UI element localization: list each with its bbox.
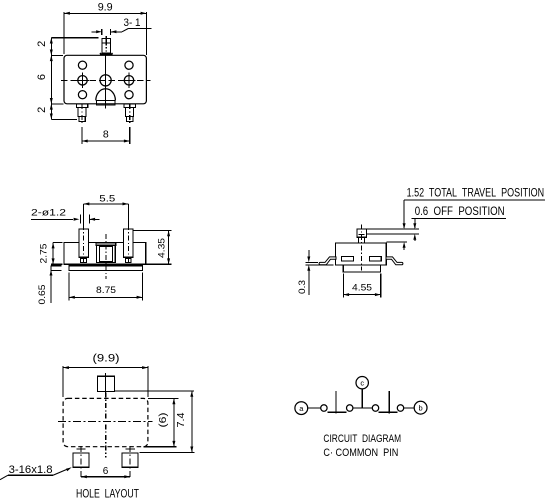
svg-text:3-16x1.8: 3-16x1.8 <box>9 464 53 476</box>
svg-text:HOLE LAYOUT: HOLE LAYOUT <box>76 486 139 500</box>
svg-text:1.52 TOTAL TRAVEL POSITION: 1.52 TOTAL TRAVEL POSITION <box>407 186 544 200</box>
svg-text:2-ø1.2: 2-ø1.2 <box>31 208 66 219</box>
svg-text:0.65: 0.65 <box>37 285 48 305</box>
svg-text:5.5: 5.5 <box>99 193 115 204</box>
svg-text:8.75: 8.75 <box>96 285 116 296</box>
svg-text:7.4: 7.4 <box>176 412 187 427</box>
svg-text:3- 1: 3- 1 <box>124 17 141 29</box>
svg-text:(9.9): (9.9) <box>93 353 120 365</box>
svg-text:0.6 OFF POSITION: 0.6 OFF POSITION <box>415 204 505 218</box>
svg-text:6: 6 <box>103 466 109 477</box>
svg-text:C· COMMON PIN: C· COMMON PIN <box>323 447 398 459</box>
svg-text:6: 6 <box>36 74 48 80</box>
svg-text:2: 2 <box>36 41 48 47</box>
svg-text:(6): (6) <box>158 413 169 428</box>
svg-text:4.55: 4.55 <box>352 283 372 294</box>
svg-text:4.35: 4.35 <box>157 238 168 258</box>
svg-text:b: b <box>419 404 423 413</box>
svg-text:2.75: 2.75 <box>38 244 49 264</box>
svg-text:c: c <box>360 379 364 388</box>
svg-text:CIRCUIT DIAGRAM: CIRCUIT DIAGRAM <box>323 433 401 445</box>
svg-text:9.9: 9.9 <box>98 2 113 14</box>
svg-text:2: 2 <box>36 107 48 113</box>
svg-text:8: 8 <box>103 128 109 140</box>
svg-text:0.3: 0.3 <box>297 280 308 294</box>
